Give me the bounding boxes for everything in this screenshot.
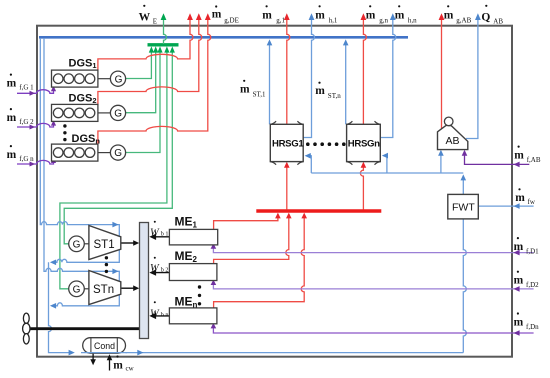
label m_f,G1	[7, 74, 35, 92]
svg-text:m: m	[7, 112, 17, 124]
svg-text:m: m	[515, 192, 525, 204]
label m_ST,n	[315, 82, 341, 101]
wire purple fuel m_f,Gn to DGSn	[17, 160, 54, 164]
wire green to generator G of ST1	[64, 50, 172, 244]
wire purple fuel m_f,D1 to ME1	[213, 248, 533, 253]
wire green from generator G of DGSn	[126, 50, 160, 153]
svg-text:h,n: h,n	[408, 16, 417, 24]
wire blue ST1 exhaust	[53, 249, 120, 262]
svg-text:AB: AB	[446, 135, 460, 147]
wire blue condenser to FWT bottom line	[126, 352, 464, 354]
block FWT feedwater tank	[448, 194, 479, 219]
wire red AB stack gas m_g,AB	[441, 16, 443, 129]
block DGSn	[52, 144, 98, 161]
svg-text:m: m	[113, 359, 123, 371]
svg-text:m: m	[315, 85, 325, 97]
wire blue top header	[39, 36, 408, 39]
svg-text:G: G	[114, 148, 122, 159]
label m_h,1	[315, 5, 338, 24]
wire purple fuel m_f,Dn to MEn	[213, 328, 533, 334]
block DGS1	[52, 70, 98, 87]
svg-text:W: W	[150, 227, 160, 238]
svg-text:h,1: h,1	[329, 16, 338, 24]
svg-text:f,D2: f,D2	[526, 281, 539, 289]
wire red HRSG1 stack gas m_g,1	[287, 16, 290, 125]
svg-text:Q: Q	[481, 11, 490, 23]
label m_f,G2	[7, 108, 35, 126]
system boundary border	[37, 26, 512, 357]
svg-text:m: m	[514, 316, 524, 328]
wire blue feedwater to HRSG1	[308, 156, 312, 173]
label W_E	[139, 5, 157, 26]
block AB auxiliary boiler	[438, 125, 468, 149]
svg-text:HRSG1: HRSG1	[272, 139, 304, 150]
svg-text:ST1: ST1	[94, 239, 115, 251]
wire red exhaust DGSn to m_g,DE	[98, 16, 211, 144]
wire green to generator G of STn	[60, 50, 167, 289]
wire purple fuel m_f,G1 to DGS1	[17, 90, 54, 94]
svg-text:m: m	[240, 83, 250, 95]
label m_ST,1	[240, 80, 266, 99]
wire red ME2 exhaust to header	[214, 216, 289, 264]
svg-text:W: W	[150, 308, 160, 319]
svg-text:Cond: Cond	[94, 341, 115, 351]
generator G of DGS1	[98, 78, 111, 80]
propeller shaft	[29, 327, 140, 330]
generator G of STn	[84, 288, 89, 290]
label m_f,Dn	[514, 312, 540, 330]
label m_fw	[515, 188, 536, 206]
label W_bn	[150, 301, 168, 319]
svg-text:m: m	[514, 150, 524, 162]
wire blue HRSG1 heat m_h,1	[303, 16, 314, 138]
svg-text:G: G	[73, 285, 81, 296]
svg-text:E: E	[153, 18, 157, 26]
block HRSG1	[270, 121, 303, 165]
svg-text:f,G 1: f,G 1	[19, 84, 34, 92]
label m_g,DE	[212, 5, 239, 24]
wire black W_b2 ME2 to shaft bus	[153, 272, 170, 274]
wire blue left steam supply to STn	[44, 38, 119, 282]
block ME1	[169, 229, 217, 245]
label m_cw	[113, 355, 134, 372]
svg-text:b n: b n	[161, 312, 169, 319]
wire blue m_fw inlet to FWT	[478, 205, 533, 207]
svg-text:W: W	[139, 12, 151, 24]
wire red header to HRSGn	[360, 165, 363, 210]
generator G of DGSn	[98, 152, 111, 154]
wire blue AB heat Q_AB	[466, 16, 478, 139]
wire purple fuel m_f,AB to AB	[465, 153, 530, 165]
svg-text:g,n: g,n	[379, 16, 388, 24]
wire black condenser cooling water out	[92, 353, 94, 361]
svg-text:m: m	[366, 9, 376, 21]
svg-text:m: m	[7, 149, 17, 161]
wire black W_b1 ME1 to shaft bus	[153, 236, 170, 238]
svg-text:HRSGn: HRSGn	[348, 139, 380, 150]
wire blue HRSGn steam m_ST,n to header	[345, 43, 347, 125]
wire red header to HRSG1	[286, 165, 288, 210]
svg-text:STn: STn	[93, 284, 114, 296]
turbine STn	[89, 271, 121, 305]
wire green from generator G of DGS2	[126, 50, 156, 113]
wire blue STn exhaust	[53, 294, 120, 306]
wire blue condensate line across condenser	[81, 352, 127, 354]
svg-text:b 1: b 1	[161, 231, 169, 238]
wire blue FWT to feedwater header	[462, 178, 464, 195]
svg-text:g,DE: g,DE	[224, 16, 239, 24]
node dots between ME2 and MEn	[198, 285, 201, 305]
shaft bus bar	[140, 223, 149, 339]
block DGS2	[52, 104, 98, 121]
svg-text:G: G	[115, 74, 123, 85]
wire red exhaust DGS2 to m_g,DE	[98, 16, 202, 105]
svg-text:g,AB: g,AB	[456, 16, 471, 24]
svg-text:G: G	[73, 240, 81, 251]
label m_h,n	[395, 5, 417, 24]
svg-text:ST,1: ST,1	[253, 90, 266, 98]
svg-text:g,1: g,1	[276, 16, 285, 24]
wire black condenser cooling water in m_cw	[109, 357, 111, 371]
label m_f,Gn	[7, 145, 35, 163]
label m_f,D2	[514, 271, 540, 289]
wire purple fuel m_f,G2 to DGS2	[17, 123, 54, 127]
wire red HRSGn stack gas m_g,n	[363, 16, 366, 125]
wire black STn shaft output	[121, 287, 135, 289]
svg-text:f,G 2: f,G 2	[19, 118, 34, 126]
propeller	[23, 313, 30, 344]
label m_g,1	[262, 5, 285, 24]
wire green W_E output	[164, 16, 167, 44]
svg-text:AB: AB	[493, 18, 503, 26]
svg-text:m: m	[395, 9, 405, 21]
svg-text:cw: cw	[126, 364, 135, 372]
node dots between DGS2 and DGSn	[63, 124, 66, 141]
wire red exhaust DGS1 to m_g,DE	[98, 16, 193, 70]
svg-text:ST,n: ST,n	[328, 92, 341, 100]
wire blue feedwater header	[311, 172, 463, 174]
label m_g,AB	[444, 5, 472, 24]
wire blue HRSG1 steam m_ST,1 to header	[269, 43, 271, 125]
svg-text:f,D1: f,D1	[526, 247, 539, 255]
svg-text:m: m	[212, 9, 222, 21]
wire blue left steam supply to ST1	[40, 38, 119, 236]
wire blue feedwater to HRSGn	[385, 156, 387, 173]
svg-text:m: m	[514, 241, 524, 253]
svg-text:DGS1: DGS1	[69, 58, 97, 71]
label Q_AB	[481, 5, 503, 26]
label m_f,AB	[514, 146, 541, 165]
block ME2	[169, 264, 217, 281]
svg-text:m: m	[514, 275, 524, 287]
wire black W_bn MEn to shaft bus	[153, 315, 170, 317]
generator G of DGS2	[98, 112, 111, 114]
wire green electric bus bar	[148, 43, 179, 46]
svg-text:b 2: b 2	[161, 267, 169, 274]
wire blue feedwater to AB	[440, 153, 442, 173]
svg-text:m: m	[7, 78, 17, 90]
svg-text:m: m	[262, 9, 272, 21]
svg-text:DGS2: DGS2	[69, 92, 97, 105]
turbine ST1	[89, 226, 121, 260]
svg-text:fw: fw	[528, 198, 536, 206]
generator G of ST1	[84, 243, 89, 245]
label m_f,D1	[514, 237, 540, 255]
wire blue condensate collector to condenser	[49, 262, 72, 352]
block HRSGn	[347, 121, 381, 165]
svg-text:G: G	[114, 109, 122, 120]
label W_b1	[150, 221, 168, 239]
svg-text:f,AB: f,AB	[527, 156, 541, 164]
node dots between HRSG1 and HRSGn	[306, 142, 346, 146]
wire red steam header bus	[256, 209, 381, 212]
svg-text:FWT: FWT	[452, 201, 475, 213]
label W_b2	[150, 257, 168, 275]
wire red MEn exhaust to header	[214, 216, 305, 308]
svg-text:m: m	[315, 9, 325, 21]
node dots between ST1 and STn	[105, 256, 108, 273]
svg-text:m: m	[444, 9, 454, 21]
label m_g,n	[366, 5, 389, 24]
svg-text:f,Dn: f,Dn	[526, 323, 539, 331]
wire purple fuel m_f,D2 to ME2	[213, 284, 533, 289]
wire green from generator G of DGS1	[126, 50, 152, 79]
wire black ST1 shaft output	[121, 242, 135, 244]
wire blue HRSGn heat m_h,n	[380, 16, 396, 138]
wire red ME1 exhaust to header	[214, 216, 278, 230]
block Cond condenser	[83, 338, 126, 354]
block MEn	[169, 308, 217, 324]
svg-text:f,G n: f,G n	[19, 155, 34, 163]
svg-text:W: W	[150, 263, 160, 274]
label G texts	[73, 74, 123, 295]
